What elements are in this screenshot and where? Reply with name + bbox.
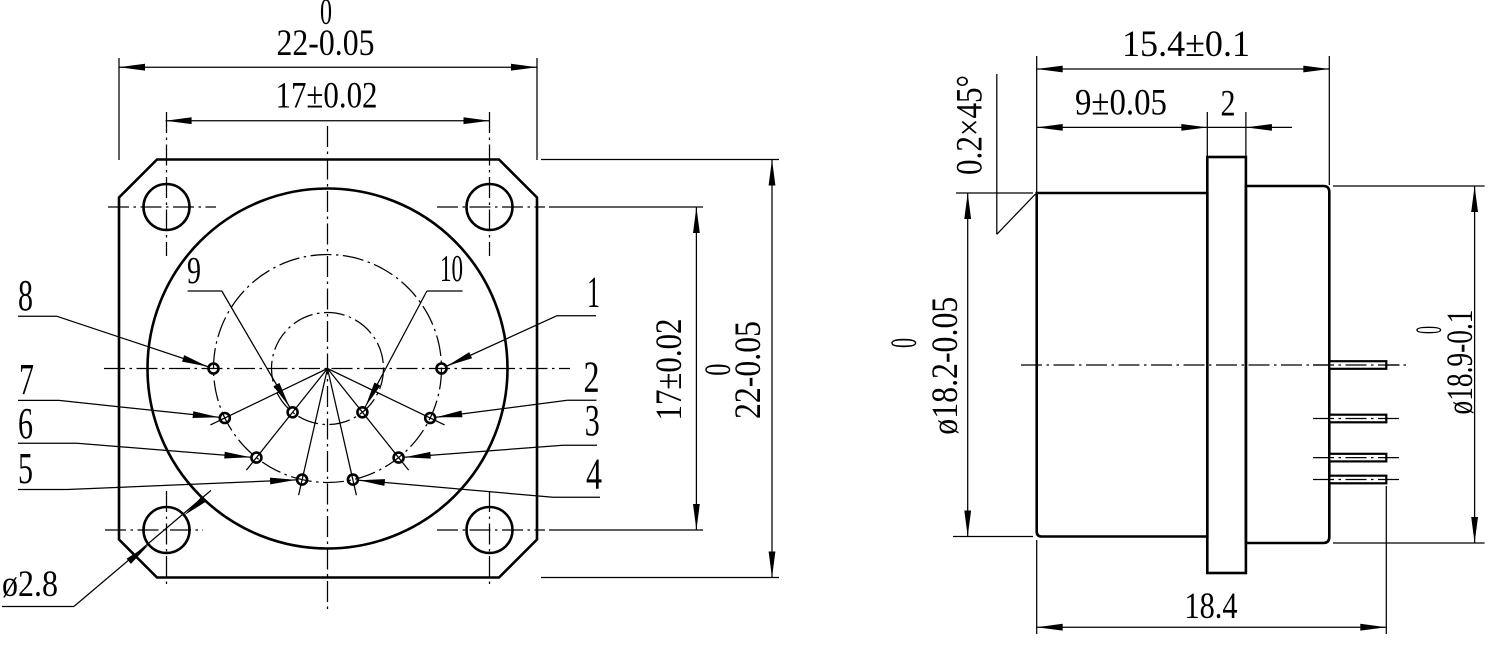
- side view pin row 3: [1329, 454, 1386, 462]
- pin 3 contact: [394, 453, 404, 463]
- dimension 17 +/-0.02 top: dimension line: [166, 120, 490, 122]
- side view square flange plate: [1207, 157, 1246, 573]
- dimension dia18.2: extension lines: [956, 192, 1033, 194]
- dimension dia18.2: dimension line: [967, 193, 969, 537]
- leader line to pin 8: [57, 316, 208, 366]
- bottom-left hole centerlines: [105, 529, 203, 531]
- svg-text:17±0.02: 17±0.02: [276, 76, 378, 117]
- radial line at 25.7 deg: [328, 369, 445, 425]
- leader line to pin 6: [77, 443, 250, 457]
- svg-text:9±0.05: 9±0.05: [1075, 83, 1167, 124]
- pin 7 contact: [220, 413, 230, 423]
- dimension 15.4 +/-0.1: extension lines: [1036, 56, 1038, 192]
- leader line to pin 1: [447, 316, 557, 366]
- bolt circle centerline (pin circle dia 12): [214, 255, 442, 483]
- bottom-right hole centerlines: [437, 529, 545, 531]
- svg-text:18.4: 18.4: [1185, 586, 1238, 627]
- svg-text:3: 3: [585, 396, 600, 445]
- pin 8 contact: [209, 364, 219, 374]
- dimension 9 +/-0.05: dimension line: [1037, 126, 1208, 128]
- svg-text:1: 1: [587, 268, 600, 317]
- svg-text:ø18.9-0.1: ø18.9-0.1: [1440, 310, 1481, 415]
- pin 5 contact: [297, 475, 307, 485]
- inner pin circle centerline (dia 6): [272, 313, 384, 425]
- bottom-left mounting hole: [144, 507, 190, 553]
- pin 6 contact: [251, 453, 261, 463]
- side view horizontal centerline: [1021, 364, 1400, 366]
- side view rear body (dia 18.9): [1246, 186, 1329, 543]
- svg-text:0: 0: [1409, 326, 1450, 334]
- connector shell big circle: [148, 189, 508, 549]
- svg-text:5: 5: [18, 444, 33, 493]
- leader line to pin 2: [436, 400, 567, 417]
- svg-text:0: 0: [698, 364, 739, 376]
- svg-text:2: 2: [1221, 84, 1236, 125]
- leader line to pin 7: [59, 400, 219, 417]
- svg-text:2: 2: [584, 352, 600, 401]
- dimension 17 +/-0.02 right: dimension line: [695, 207, 697, 530]
- top-right hole centerlines: [437, 206, 545, 208]
- dimension dia18.9: extension lines: [1333, 185, 1485, 187]
- dimension 22-0.05 right: dimension line: [771, 160, 773, 578]
- pin 2 contact: [425, 413, 435, 423]
- svg-text:0: 0: [884, 338, 925, 348]
- dimension 9: right extension line: [1206, 112, 1208, 156]
- bottom-right mounting hole: [467, 507, 513, 553]
- dimension dia18.9: dimension line: [1474, 186, 1476, 543]
- radial line at 102.9 deg: [299, 369, 328, 496]
- radial line at 154.3 deg: [210, 369, 327, 425]
- svg-text:10: 10: [440, 248, 463, 290]
- svg-text:ø18.2-0.05: ø18.2-0.05: [925, 297, 966, 435]
- svg-text:0: 0: [320, 0, 332, 33]
- pin 10 contact: [357, 407, 367, 417]
- dimension 22-0.05 top: dimension line: [119, 66, 537, 68]
- pin 9 contact: [288, 407, 298, 417]
- radial line at 77.1 deg: [328, 369, 357, 496]
- pin 4 contact: [348, 475, 358, 485]
- svg-text:17±0.02: 17±0.02: [649, 319, 690, 421]
- front view vertical centerline: [327, 126, 329, 611]
- chamfer note 0.2x45deg: leader: [996, 74, 998, 234]
- radial line at 128.6 deg: [246, 369, 327, 471]
- leader line to pin 4: [359, 480, 553, 497]
- side view pin row 1: [1329, 361, 1386, 369]
- dimension dia2.8: leader lines: [2, 606, 74, 608]
- side view front shell body (dia 18.2): [1037, 193, 1208, 537]
- dimension 2: extension line: [1245, 112, 1247, 156]
- side view pin row 4: [1329, 476, 1386, 484]
- front view horizontal centerline: [104, 368, 570, 370]
- dimension 18.4: dimension line: [1037, 626, 1387, 628]
- svg-text:4: 4: [586, 450, 602, 499]
- leader line to pin 3: [405, 445, 563, 457]
- radial line at 51.4 deg: [328, 369, 409, 471]
- top-left hole centerlines: [108, 206, 216, 208]
- dimension 2: dimension line with outside arrow: [1207, 126, 1246, 128]
- svg-text:15.4±0.1: 15.4±0.1: [1122, 24, 1250, 65]
- dimension 18.4: extension lines: [1036, 540, 1038, 634]
- dimension 22-0.05 top: extension lines: [118, 58, 120, 160]
- leader line to pin 10: [365, 291, 427, 407]
- svg-text:0.2×45°: 0.2×45°: [950, 75, 991, 175]
- front view square flange outline: [119, 160, 537, 578]
- side view pin row 2: [1329, 415, 1386, 423]
- dimension 15.4 +/-0.1: dimension line: [1037, 68, 1330, 70]
- dimension 17 +/-0.02 right: extension lines: [549, 206, 703, 208]
- pin 1 contact: [437, 364, 447, 374]
- leader line to pin 9: [222, 291, 290, 407]
- svg-text:6: 6: [18, 399, 33, 448]
- svg-text:ø2.8: ø2.8: [2, 564, 58, 605]
- top-right mounting hole: [467, 184, 513, 230]
- dimension 22-0.05 right: extension lines: [541, 159, 779, 161]
- leader line to pin 5: [67, 480, 296, 490]
- top-left mounting hole: [144, 184, 190, 230]
- svg-text:7: 7: [19, 355, 34, 404]
- svg-text:9: 9: [187, 250, 201, 292]
- svg-text:8: 8: [18, 271, 33, 320]
